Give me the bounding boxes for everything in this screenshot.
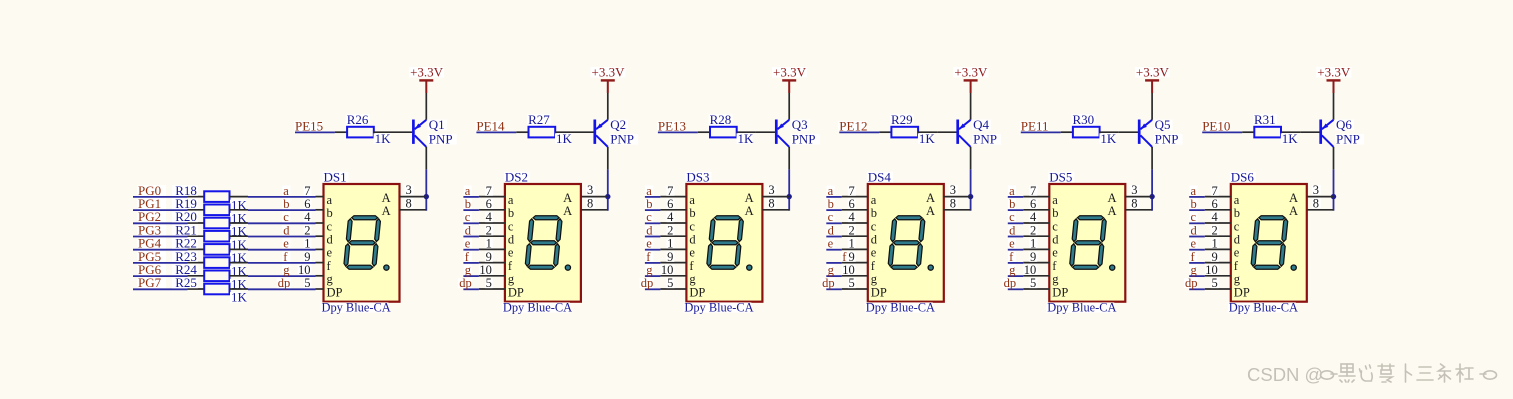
svg-text:+3.3V: +3.3V — [954, 65, 988, 80]
display DS1 — [321, 169, 400, 314]
wire R25 to DS1 pin 5 — [248, 288, 316, 290]
svg-text:b: b — [1052, 206, 1058, 220]
svg-text:d: d — [327, 233, 334, 247]
svg-text:PNP: PNP — [1336, 132, 1360, 147]
svg-text:Dpy Blue-CA: Dpy Blue-CA — [684, 301, 753, 315]
net label c / pin 4 of DS6 — [1189, 210, 1231, 224]
svg-text:9: 9 — [1030, 250, 1036, 264]
svg-text:Q1: Q1 — [429, 117, 445, 132]
CSDN watermark — [1247, 364, 1497, 385]
svg-text:2: 2 — [1030, 223, 1036, 237]
power +3.3V rail column 1 — [409, 65, 444, 94]
resistor R22 1K — [172, 236, 248, 266]
svg-text:CSDN @: CSDN @ — [1247, 364, 1323, 385]
wire PG4 to R22 — [133, 249, 188, 251]
junction dot — [605, 194, 610, 199]
svg-text:Q2: Q2 — [610, 117, 626, 132]
svg-text:e: e — [1191, 237, 1197, 251]
net label d / pin 2 of DS3 — [645, 223, 687, 237]
svg-text:a: a — [828, 184, 834, 198]
svg-text:2: 2 — [1212, 223, 1218, 237]
net label dp / pin 5 of DS5 — [1003, 276, 1050, 290]
svg-text:3: 3 — [406, 183, 412, 197]
svg-text:A: A — [745, 191, 754, 205]
svg-text:+3.3V: +3.3V — [773, 65, 807, 80]
svg-text:A: A — [1289, 204, 1298, 218]
svg-text:c: c — [828, 210, 834, 224]
svg-text:4: 4 — [486, 210, 493, 224]
net label b / pin 6 of DS3 — [645, 197, 687, 211]
wire PG6 to R24 — [133, 275, 188, 277]
net label g / pin 10 of DS6 — [1189, 263, 1231, 277]
svg-text:R25: R25 — [175, 275, 197, 290]
net label d / pin 2 of DS1 — [282, 223, 323, 237]
pin 8 of DS3 — [762, 196, 789, 210]
svg-text:10: 10 — [298, 263, 311, 277]
svg-text:A: A — [563, 204, 572, 218]
wire R18 to DS1 pin 7 — [248, 196, 316, 198]
transistor Q1 PNP — [393, 117, 457, 169]
svg-text:g: g — [508, 272, 515, 286]
pin 8 of DS6 — [1307, 196, 1334, 210]
svg-text:a: a — [283, 184, 289, 198]
net label f / pin 9 of DS2 — [463, 250, 505, 264]
svg-text:3: 3 — [1313, 183, 1319, 197]
svg-text:dp: dp — [1004, 276, 1017, 290]
pin 3 of DS5 — [1125, 183, 1152, 197]
svg-text:PE13: PE13 — [658, 119, 686, 134]
svg-text:b: b — [1009, 197, 1015, 211]
svg-text:1: 1 — [1212, 237, 1218, 251]
net label a / pin 7 of DS5 — [1008, 184, 1050, 198]
svg-text:4: 4 — [849, 210, 856, 224]
pin 3 of DS2 — [581, 183, 608, 197]
junction dot — [424, 194, 429, 199]
svg-text:Q3: Q3 — [792, 117, 808, 132]
transistor Q2 PNP — [575, 117, 639, 169]
svg-text:5: 5 — [667, 276, 673, 290]
svg-text:1: 1 — [304, 237, 310, 251]
resistor R30 1K — [1061, 112, 1119, 146]
wire +3.3V to Q3 emitter — [788, 93, 790, 120]
svg-text:g: g — [1009, 263, 1016, 277]
svg-text:c: c — [327, 219, 333, 233]
wire R19 to DS1 pin 6 — [248, 209, 316, 211]
svg-text:3: 3 — [587, 183, 593, 197]
svg-text:1K: 1K — [738, 131, 755, 146]
svg-text:10: 10 — [1205, 263, 1218, 277]
svg-text:DS4: DS4 — [868, 169, 892, 184]
wire PE10 to R31 — [1202, 131, 1242, 133]
net label PG3 — [137, 222, 166, 237]
svg-text:A: A — [1289, 191, 1298, 205]
svg-text:7: 7 — [849, 184, 855, 198]
svg-text:1K: 1K — [231, 290, 248, 305]
svg-text:4: 4 — [1212, 210, 1219, 224]
net label g / pin 10 of DS3 — [645, 263, 687, 277]
svg-text:8: 8 — [1131, 196, 1137, 210]
net label f / pin 9 of DS1 — [282, 250, 323, 264]
svg-text:A: A — [382, 191, 391, 205]
svg-text:e: e — [1234, 246, 1240, 260]
svg-text:10: 10 — [479, 263, 492, 277]
svg-text:1K: 1K — [556, 131, 573, 146]
net label e / pin 1 of DS2 — [463, 237, 505, 251]
net label b / pin 6 of DS4 — [826, 197, 868, 211]
wire PE14 to R27 — [476, 131, 516, 133]
svg-text:c: c — [646, 210, 652, 224]
svg-text:Dpy Blue-CA: Dpy Blue-CA — [1229, 301, 1298, 315]
pin 8 of DS5 — [1125, 196, 1152, 210]
wire PG0 to R18 — [133, 196, 188, 198]
svg-text:+3.3V: +3.3V — [410, 65, 444, 80]
svg-text:d: d — [1009, 223, 1016, 237]
svg-text:dp: dp — [822, 276, 835, 290]
svg-text:PNP: PNP — [973, 132, 997, 147]
svg-text:Q6: Q6 — [1336, 117, 1352, 132]
net label b / pin 6 of DS2 — [463, 197, 505, 211]
resistor R29 1K — [879, 112, 937, 146]
svg-text:a: a — [1052, 193, 1058, 207]
svg-text:10: 10 — [661, 263, 674, 277]
net label dp / pin 5 of DS2 — [458, 276, 505, 290]
net label PG7 — [137, 275, 166, 290]
resistor R27 1K — [516, 112, 574, 146]
wire Q4 collector to DS4 pins 3/8 — [970, 169, 972, 210]
net label a / pin 7 of DS3 — [645, 184, 687, 198]
svg-text:1: 1 — [667, 237, 673, 251]
net label PE11 — [1020, 119, 1049, 134]
svg-text:Dpy Blue-CA: Dpy Blue-CA — [503, 301, 572, 315]
svg-text:5: 5 — [486, 276, 492, 290]
svg-text:e: e — [871, 246, 877, 260]
pin 8 of DS2 — [581, 196, 608, 210]
svg-text:6: 6 — [1030, 197, 1036, 211]
svg-text:g: g — [828, 263, 835, 277]
svg-text:6: 6 — [667, 197, 673, 211]
svg-text:5: 5 — [849, 276, 855, 290]
net label PG0 — [137, 183, 166, 198]
svg-text:DP: DP — [689, 285, 705, 299]
net label f / pin 9 of DS3 — [645, 250, 687, 264]
svg-text:dp: dp — [459, 276, 472, 290]
svg-text:e: e — [508, 246, 514, 260]
display DS6 — [1228, 169, 1307, 314]
svg-text:PE11: PE11 — [1021, 119, 1049, 134]
svg-text:b: b — [283, 197, 289, 211]
svg-text:R30: R30 — [1073, 112, 1095, 127]
svg-text:PG7: PG7 — [138, 275, 162, 290]
net label e / pin 1 of DS4 — [826, 237, 868, 251]
svg-text:2: 2 — [304, 223, 310, 237]
svg-text:DS1: DS1 — [324, 169, 347, 184]
svg-text:A: A — [1107, 204, 1116, 218]
power +3.3V rail column 5 — [1135, 65, 1170, 94]
net label d / pin 2 of DS5 — [1008, 223, 1050, 237]
net label g / pin 10 of DS2 — [463, 263, 505, 277]
net label PG2 — [137, 209, 166, 224]
svg-text:DP: DP — [1234, 285, 1250, 299]
wire +3.3V to Q4 emitter — [970, 93, 972, 120]
resistor R28 1K — [698, 112, 756, 146]
svg-text:7: 7 — [486, 184, 492, 198]
net label a / pin 7 of DS2 — [463, 184, 505, 198]
net label d / pin 2 of DS2 — [463, 223, 505, 237]
power +3.3V rail column 2 — [591, 65, 626, 94]
pin 3 of DS6 — [1307, 183, 1334, 197]
net label PE13 — [657, 119, 686, 134]
svg-text:10: 10 — [842, 263, 855, 277]
svg-text:PNP: PNP — [610, 132, 634, 147]
svg-text:1: 1 — [1030, 237, 1036, 251]
resistor R24 1K — [172, 262, 248, 292]
svg-text:6: 6 — [849, 197, 855, 211]
net label a / pin 7 of DS4 — [826, 184, 868, 198]
net label c / pin 4 of DS5 — [1008, 210, 1050, 224]
wire +3.3V to Q6 emitter — [1333, 93, 1335, 120]
svg-text:+3.3V: +3.3V — [592, 65, 626, 80]
svg-text:g: g — [1052, 272, 1059, 286]
power +3.3V rail column 6 — [1316, 65, 1351, 94]
svg-text:PE12: PE12 — [839, 119, 867, 134]
resistor R20 1K — [172, 209, 248, 239]
svg-text:8: 8 — [406, 196, 412, 210]
wire PG1 to R19 — [133, 209, 188, 211]
net label f / pin 9 of DS5 — [1008, 250, 1050, 264]
svg-text:d: d — [646, 223, 653, 237]
transistor Q3 PNP — [756, 117, 820, 169]
net label g / pin 10 of DS5 — [1008, 263, 1050, 277]
svg-text:6: 6 — [1212, 197, 1218, 211]
wire PE15 to R26 — [295, 131, 335, 133]
svg-text:R28: R28 — [710, 112, 732, 127]
display DS2 — [502, 169, 581, 314]
net label dp / pin 5 of DS6 — [1184, 276, 1231, 290]
net label b / pin 6 of DS1 — [282, 197, 323, 211]
svg-text:Q4: Q4 — [973, 117, 989, 132]
svg-text:DS6: DS6 — [1231, 169, 1255, 184]
svg-text:a: a — [689, 193, 695, 207]
svg-text:A: A — [382, 204, 391, 218]
svg-text:A: A — [926, 204, 935, 218]
net label f / pin 9 of DS4 — [826, 250, 868, 264]
svg-text:DP: DP — [1052, 285, 1068, 299]
net label PG1 — [137, 196, 166, 211]
resistor R26 1K — [335, 112, 393, 146]
svg-text:Q5: Q5 — [1155, 117, 1171, 132]
junction dot — [1331, 194, 1336, 199]
svg-text:2: 2 — [486, 223, 492, 237]
net label e / pin 1 of DS6 — [1189, 237, 1231, 251]
svg-text:DP: DP — [871, 285, 887, 299]
svg-text:R31: R31 — [1254, 112, 1276, 127]
svg-text:PE10: PE10 — [1202, 119, 1230, 134]
svg-text:a: a — [871, 193, 877, 207]
svg-text:a: a — [1191, 184, 1197, 198]
junction dot — [787, 194, 792, 199]
svg-text:1: 1 — [849, 237, 855, 251]
svg-text:d: d — [508, 233, 515, 247]
wire Q5 collector to DS5 pins 3/8 — [1151, 169, 1153, 210]
net label PE10 — [1201, 119, 1230, 134]
svg-text:4: 4 — [1030, 210, 1037, 224]
transistor Q5 PNP — [1119, 117, 1183, 169]
svg-text:7: 7 — [304, 184, 310, 198]
svg-text:c: c — [871, 219, 877, 233]
svg-text:8: 8 — [768, 196, 774, 210]
net label a / pin 7 of DS1 — [282, 184, 323, 198]
net label g / pin 10 of DS1 — [282, 263, 323, 277]
svg-text:1K: 1K — [1100, 131, 1117, 146]
net label e / pin 1 of DS3 — [645, 237, 687, 251]
svg-text:5: 5 — [1212, 276, 1218, 290]
svg-text:7: 7 — [1030, 184, 1036, 198]
svg-text:6: 6 — [486, 197, 492, 211]
svg-text:DS3: DS3 — [686, 169, 709, 184]
svg-text:PE14: PE14 — [476, 119, 505, 134]
wire R24 to DS1 pin 10 — [248, 275, 316, 277]
svg-text:7: 7 — [667, 184, 673, 198]
net label e / pin 1 of DS1 — [282, 237, 323, 251]
net label PG5 — [137, 249, 166, 264]
net label g / pin 10 of DS4 — [826, 263, 868, 277]
svg-text:8: 8 — [950, 196, 956, 210]
svg-text:1K: 1K — [919, 131, 936, 146]
svg-text:a: a — [1009, 184, 1015, 198]
svg-text:+3.3V: +3.3V — [1136, 65, 1170, 80]
svg-text:g: g — [465, 263, 472, 277]
svg-text:1: 1 — [486, 237, 492, 251]
wire Q1 collector to DS1 pins 3/8 — [425, 169, 427, 210]
svg-text:R26: R26 — [347, 112, 369, 127]
svg-text:dp: dp — [278, 276, 291, 290]
wire +3.3V to Q5 emitter — [1151, 93, 1153, 120]
svg-text:e: e — [465, 237, 471, 251]
svg-text:d: d — [283, 223, 290, 237]
net label c / pin 4 of DS2 — [463, 210, 505, 224]
svg-text:e: e — [689, 246, 695, 260]
svg-text:d: d — [1052, 233, 1059, 247]
svg-text:DS2: DS2 — [505, 169, 528, 184]
wire PG3 to R21 — [133, 236, 188, 238]
svg-text:d: d — [1191, 223, 1198, 237]
display DS3 — [683, 169, 762, 314]
svg-text:c: c — [1009, 210, 1015, 224]
net label a / pin 7 of DS6 — [1189, 184, 1231, 198]
svg-text:R27: R27 — [528, 112, 550, 127]
svg-text:b: b — [1191, 197, 1197, 211]
svg-text:9: 9 — [849, 250, 855, 264]
svg-text:g: g — [646, 263, 653, 277]
svg-text:g: g — [689, 272, 696, 286]
svg-text:a: a — [508, 193, 514, 207]
svg-text:1K: 1K — [1282, 131, 1299, 146]
svg-text:7: 7 — [1212, 184, 1218, 198]
junction dot — [1149, 194, 1154, 199]
wire Q3 collector to DS3 pins 3/8 — [788, 169, 790, 210]
wire R20 to DS1 pin 4 — [248, 222, 316, 224]
resistor R23 1K — [172, 249, 248, 279]
svg-text:c: c — [465, 210, 471, 224]
net label PE14 — [475, 119, 505, 134]
svg-text:e: e — [327, 246, 333, 260]
net label b / pin 6 of DS5 — [1008, 197, 1050, 211]
svg-text:b: b — [465, 197, 471, 211]
svg-text:2: 2 — [849, 223, 855, 237]
svg-text:dp: dp — [641, 276, 654, 290]
svg-text:DP: DP — [327, 285, 343, 299]
svg-text:PNP: PNP — [429, 132, 453, 147]
svg-text:a: a — [646, 184, 652, 198]
net label d / pin 2 of DS4 — [826, 223, 868, 237]
svg-text:3: 3 — [1131, 183, 1137, 197]
svg-text:A: A — [926, 191, 935, 205]
svg-text:PNP: PNP — [1155, 132, 1179, 147]
wire R23 to DS1 pin 9 — [248, 262, 316, 264]
svg-text:a: a — [1234, 193, 1240, 207]
junction dot — [968, 194, 973, 199]
svg-text:e: e — [1009, 237, 1015, 251]
svg-text:a: a — [465, 184, 471, 198]
svg-text:b: b — [828, 197, 834, 211]
svg-text:+3.3V: +3.3V — [1317, 65, 1351, 80]
svg-text:A: A — [1107, 191, 1116, 205]
net label b / pin 6 of DS6 — [1189, 197, 1231, 211]
resistor R19 1K — [172, 196, 248, 226]
svg-text:Dpy Blue-CA: Dpy Blue-CA — [322, 301, 391, 315]
svg-text:4: 4 — [304, 210, 311, 224]
net label f / pin 9 of DS6 — [1189, 250, 1231, 264]
svg-text:PNP: PNP — [792, 132, 816, 147]
display DS4 — [865, 169, 944, 314]
net label dp / pin 5 of DS3 — [640, 276, 687, 290]
net label d / pin 2 of DS6 — [1189, 223, 1231, 237]
resistor R31 1K — [1242, 112, 1300, 146]
svg-text:R29: R29 — [891, 112, 913, 127]
svg-text:Dpy Blue-CA: Dpy Blue-CA — [1047, 301, 1116, 315]
svg-text:c: c — [283, 210, 289, 224]
svg-text:A: A — [745, 204, 754, 218]
net label c / pin 4 of DS4 — [826, 210, 868, 224]
svg-text:e: e — [283, 237, 289, 251]
svg-text:8: 8 — [587, 196, 593, 210]
wire R21 to DS1 pin 2 — [248, 236, 316, 238]
wire +3.3V to Q1 emitter — [425, 93, 427, 120]
net label dp / pin 5 of DS4 — [821, 276, 868, 290]
wire PG5 to R23 — [133, 262, 188, 264]
svg-text:5: 5 — [304, 276, 310, 290]
pin 3 of DS1 — [400, 183, 427, 197]
resistor R25 1K — [172, 275, 248, 305]
svg-text:c: c — [508, 219, 514, 233]
svg-text:9: 9 — [486, 250, 492, 264]
svg-text:b: b — [327, 206, 333, 220]
net label PG6 — [137, 262, 166, 277]
svg-text:d: d — [465, 223, 472, 237]
svg-text:b: b — [646, 197, 652, 211]
svg-text:c: c — [689, 219, 695, 233]
net label PE15 — [294, 119, 323, 134]
svg-text:2: 2 — [667, 223, 673, 237]
svg-text:3: 3 — [950, 183, 956, 197]
svg-text:5: 5 — [1030, 276, 1036, 290]
svg-text:10: 10 — [1024, 263, 1037, 277]
svg-text:a: a — [327, 193, 333, 207]
svg-text:A: A — [563, 191, 572, 205]
svg-text:1K: 1K — [375, 131, 392, 146]
display DS5 — [1046, 169, 1125, 314]
svg-text:b: b — [1234, 206, 1240, 220]
